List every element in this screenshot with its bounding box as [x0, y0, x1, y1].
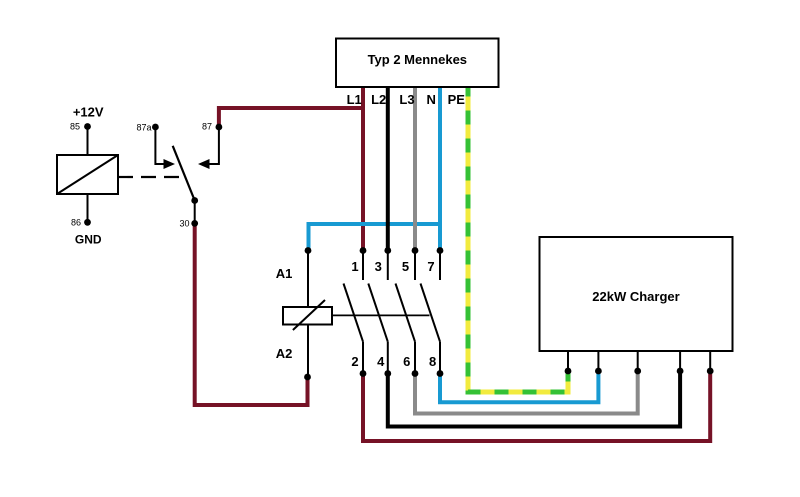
svg-text:L2: L2 [371, 92, 386, 107]
svg-text:30: 30 [179, 219, 189, 229]
svg-text:5: 5 [402, 259, 409, 274]
svg-text:PE: PE [448, 92, 466, 107]
svg-text:6: 6 [403, 354, 410, 369]
svg-text:4: 4 [377, 354, 385, 369]
svg-text:87a: 87a [136, 123, 151, 133]
svg-text:Typ 2 Mennekes: Typ 2 Mennekes [368, 52, 467, 67]
svg-text:L1: L1 [347, 92, 362, 107]
svg-text:GND: GND [75, 233, 102, 247]
svg-text:87: 87 [202, 122, 212, 132]
svg-text:7: 7 [427, 259, 434, 274]
svg-text:3: 3 [375, 259, 382, 274]
svg-text:22kW Charger: 22kW Charger [592, 289, 679, 304]
svg-text:+12V: +12V [73, 105, 104, 120]
svg-text:2: 2 [351, 354, 358, 369]
svg-text:86: 86 [71, 218, 81, 228]
svg-text:85: 85 [70, 122, 80, 132]
svg-text:L3: L3 [399, 92, 414, 107]
svg-text:8: 8 [429, 354, 436, 369]
svg-text:N: N [427, 92, 436, 107]
svg-text:A1: A1 [276, 266, 293, 281]
svg-text:A2: A2 [276, 346, 293, 361]
svg-text:1: 1 [351, 259, 358, 274]
